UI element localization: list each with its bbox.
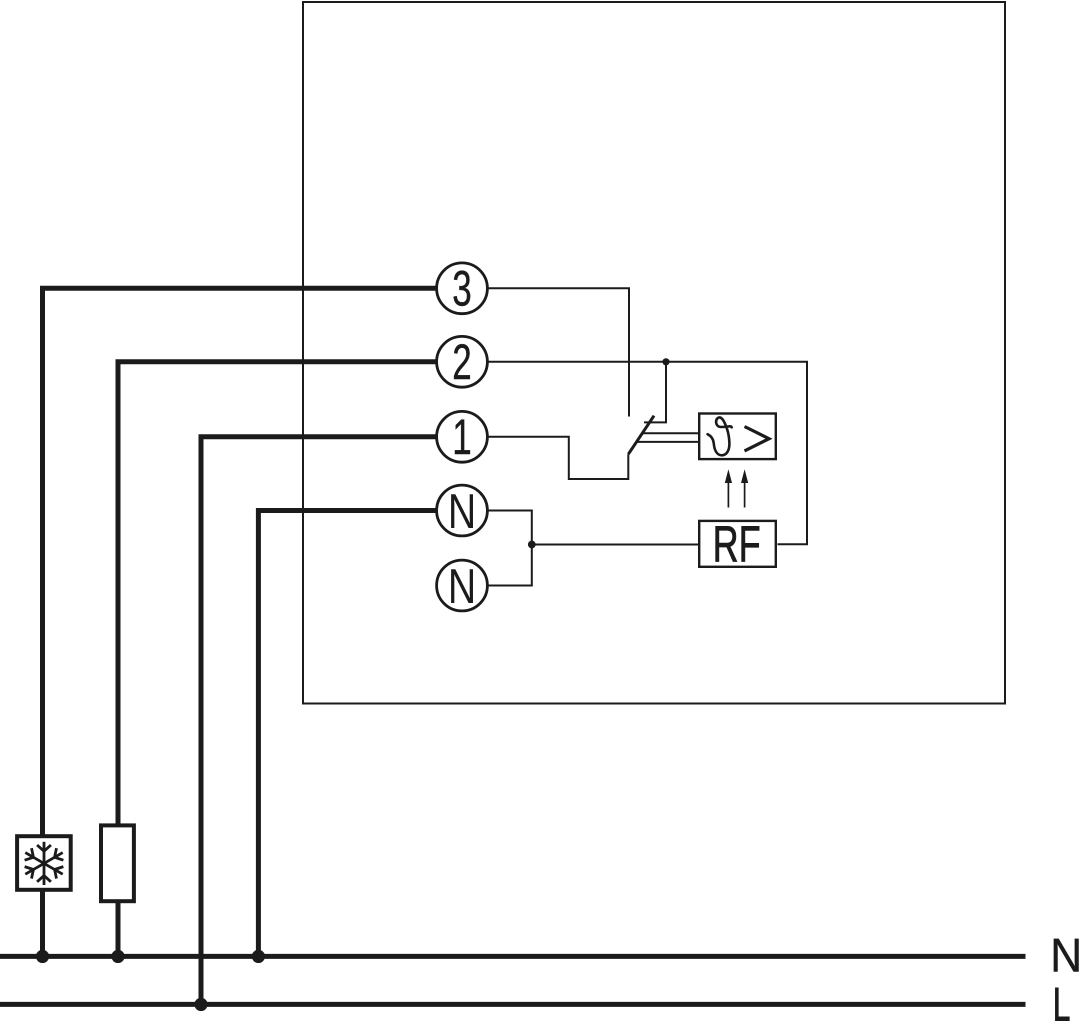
- wire N terminals loop: [489, 511, 532, 586]
- junction on N loop: [528, 541, 536, 549]
- wire from terminal 1 to L bus: [201, 437, 436, 1005]
- snowflake symbol: [22, 842, 66, 885]
- svg-text:N: N: [1050, 929, 1080, 982]
- RF receiver box: [699, 521, 776, 567]
- svg-text:2: 2: [452, 334, 471, 390]
- terminal N (bottom): [437, 560, 488, 614]
- device outline (receiver unit enclosure): [303, 2, 1005, 704]
- wire from terminal 3 to N bus: [43, 288, 437, 956]
- signal arrow right (RF to thermostat): [741, 469, 748, 507]
- terminal 3: [437, 260, 488, 316]
- signal arrow left (RF to thermostat): [725, 469, 732, 507]
- terminal 1: [437, 409, 488, 465]
- wire N junction to RF: [532, 544, 699, 546]
- greater-than symbol: [745, 427, 770, 451]
- junction wire3 / N bus: [36, 950, 49, 963]
- wire terminal 2 to right vertical and down to RF: [489, 362, 808, 545]
- mechanical linkage to thermostat: [643, 432, 699, 434]
- svg-text:3: 3: [452, 260, 471, 316]
- terminal 2: [437, 334, 488, 390]
- junction wireN / N bus: [252, 950, 265, 963]
- antifreeze load (snowflake box): [17, 836, 71, 890]
- switch fixed contact (hook from junction): [644, 362, 666, 423]
- junction on wire 2: [662, 358, 669, 365]
- junction wire1 / L bus: [194, 998, 207, 1011]
- svg-text:N: N: [448, 560, 476, 614]
- switch blade: [628, 416, 654, 455]
- svg-text:RF: RF: [713, 516, 761, 573]
- svg-text:N: N: [448, 485, 476, 539]
- wire from terminal N to N bus: [258, 511, 436, 957]
- svg-text:1: 1: [452, 409, 471, 465]
- terminal N (top): [437, 485, 488, 539]
- heating load (resistor box): [101, 825, 134, 901]
- junction wire2 / N bus: [111, 950, 124, 963]
- wire from terminal 2 to N bus: [118, 362, 436, 957]
- N bus line: [0, 954, 1026, 959]
- L bus line: [0, 1002, 1026, 1007]
- wire terminal 3 to switch fixed contact: [489, 288, 630, 416]
- theta symbol: [708, 417, 732, 455]
- thermostat box: [699, 414, 776, 460]
- wire terminal 1 to switch pivot: [489, 437, 629, 479]
- svg-text:L: L: [1053, 978, 1071, 1031]
